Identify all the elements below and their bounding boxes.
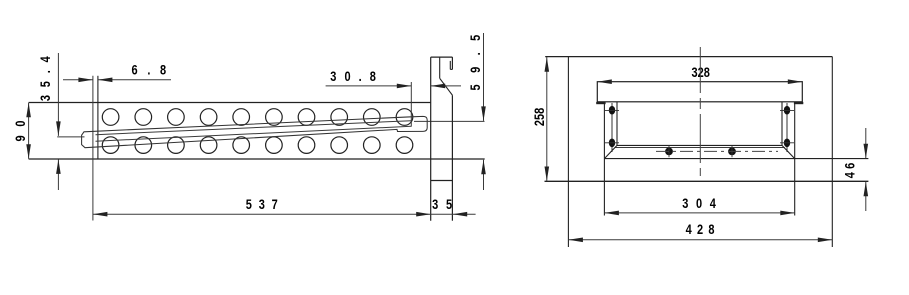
slat inner line lower (96, 126, 412, 141)
dim 258 (546, 57, 548, 181)
dim 428 (568, 239, 832, 241)
centerline horizontal (tray) (656, 150, 778, 152)
hook bend diagonal (440, 78, 453, 95)
hole circles top row (102, 109, 413, 126)
dim 90 (28, 103, 30, 159)
svg-text:9 0: 9 0 (13, 118, 28, 142)
dim 537 (93, 213, 476, 215)
svg-text:46: 46 (842, 160, 857, 179)
leader 35.4 into slat left end (57, 136, 84, 138)
hook bottom (431, 180, 453, 182)
svg-text:3 5: 3 5 (432, 197, 454, 212)
hole circles bottom row (102, 137, 413, 154)
outer rect left + ext (567, 57, 569, 247)
lintel (top bar) (597, 82, 802, 102)
dim 6.8 (63, 79, 93, 81)
dim 35.4 (57, 53, 59, 136)
hook lip inner (449, 61, 451, 70)
hook right edge + ext down (451, 95, 453, 221)
slat right end inner vertical / 30.8 ext (410, 82, 412, 127)
hook top (431, 56, 453, 58)
svg-text:5 3 7: 5 3 7 (246, 197, 280, 212)
outer rect top (545, 56, 832, 58)
dim 35 (right bracket width) (453, 212, 468, 217)
lintel foot right (794, 102, 803, 104)
hook bracket (right end part) left edge / bar right edge + ext (430, 57, 432, 221)
post right: outer edges + axis (794, 102, 796, 216)
svg-text:3 0 . 8: 3 0 . 8 (330, 69, 378, 84)
svg-text:4 2 8: 4 2 8 (686, 222, 716, 237)
ext line 537/6.8 left (92, 76, 94, 221)
svg-text:258: 258 (532, 108, 547, 126)
centerline vertical (699, 47, 701, 176)
tray bolts (665, 148, 736, 156)
lintel foot left (596, 102, 605, 104)
leader from slat right end (59.5 top ext) (414, 120, 485, 122)
hook lip bottom (450, 68, 452, 70)
bar left edge (97, 76, 99, 159)
dim 30.8 (326, 85, 412, 87)
dim 328 (arrows on lintel top edge) (597, 79, 612, 84)
outer rect bottom (545, 180, 869, 182)
dim 46 (865, 128, 867, 158)
dim 59.5 (483, 33, 485, 121)
dim 304 (604, 212, 794, 214)
svg-text:3 0 4: 3 0 4 (682, 196, 718, 211)
hook inner vertical (439, 57, 441, 78)
bar top edge (with 90 ext to left) (29, 102, 431, 104)
post bolts (609, 106, 790, 147)
svg-text:6 . 8: 6 . 8 (132, 62, 170, 77)
diagonal slat outer outline (82, 116, 428, 147)
outer rect right + ext (831, 57, 833, 247)
slat inner line upper (96, 121, 412, 135)
svg-text:3 5 . 4: 3 5 . 4 (38, 54, 53, 101)
svg-text:5 9 . 5: 5 9 . 5 (468, 31, 483, 91)
hook lip outer (451, 57, 453, 69)
tray (617, 144, 782, 146)
post left: outer edges + axis (603, 102, 605, 216)
bar bottom edge (ext right to 59.5 dim) (29, 158, 485, 160)
